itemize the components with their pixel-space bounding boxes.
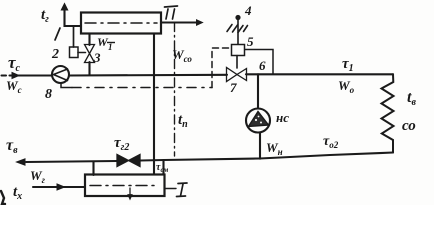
valve 3 (regulating, vertical) — [85, 45, 95, 54]
svg-text:Wс: Wс — [6, 78, 22, 95]
wire: exchanger II outlet to right arrow — [161, 21, 198, 23]
svg-text:tв: tв — [407, 89, 416, 108]
svg-text:6: 6 — [259, 58, 266, 73]
svg-text:tх: tх — [13, 184, 22, 202]
svg-text:7: 7 — [230, 80, 237, 95]
heat exchanger II (stage 2) — [81, 13, 161, 34]
svg-text:tп: tп — [178, 112, 188, 130]
svg-text:со: со — [402, 118, 416, 134]
exchanger I drain arrow — [129, 188, 131, 197]
svg-text:τг2: τг2 — [114, 135, 129, 153]
node 1 label pointer — [55, 28, 60, 40]
wire: branch to sensor 2 — [73, 26, 75, 47]
svg-text:3: 3 — [93, 50, 101, 65]
svg-text:5: 5 — [247, 34, 254, 49]
wire: impulse line from 8 — [61, 83, 72, 88]
wire: return main — [141, 153, 394, 161]
wire: return to exchanger I — [92, 162, 94, 175]
svg-text:τ1: τ1 — [342, 56, 354, 74]
wire: supply main tau_c — [2, 74, 7, 76]
wire: stub to exchanger I right — [162, 160, 164, 174]
svg-text:8: 8 — [45, 87, 52, 102]
label II (П) — [165, 6, 178, 19]
wire: box5 to node 6 — [245, 50, 273, 74]
wire: cold water feed — [33, 186, 85, 188]
svg-text:Wо: Wо — [338, 78, 355, 95]
wire: pump to return main — [259, 133, 261, 159]
svg-text:τо2: τо2 — [323, 134, 339, 150]
svg-text:Wсо: Wсо — [172, 47, 192, 64]
svg-text:τв: τв — [6, 137, 18, 156]
sensor box 2 — [70, 47, 79, 58]
exchanger I centerline — [90, 185, 158, 187]
wire: box5 stem to valve 7 — [236, 56, 238, 69]
label I (roman) — [177, 183, 188, 197]
heat exchanger I (stage 1) — [85, 175, 165, 197]
wire: exchanger II to valve 3 — [88, 34, 90, 46]
label I leader — [165, 188, 177, 190]
wire: valve 3 to supply main — [88, 62, 90, 75]
svg-text:4: 4 — [244, 3, 252, 18]
svg-text:tг: tг — [41, 7, 49, 25]
wire: t_п impulse line — [174, 23, 176, 157]
wire: pump branch — [257, 74, 259, 108]
svg-text:нс: нс — [276, 110, 289, 125]
valve 7 (regulating, horizontal) — [227, 68, 238, 82]
radiator CO — [382, 74, 394, 152]
wire: supply main to valve 7 — [69, 74, 227, 77]
svg-text:τсм: τсм — [156, 162, 169, 174]
svg-text:Wн: Wн — [266, 140, 283, 157]
svg-text:Wг: Wг — [30, 168, 46, 185]
pump HC — [246, 109, 270, 133]
wire: valve 7 to radiator — [246, 73, 393, 75]
ink blot bottom-left corner — [1, 191, 5, 204]
flow meter 8 — [52, 66, 69, 83]
regulator box 5 — [232, 45, 245, 56]
wire: riser stage1 to stage2 — [153, 34, 155, 175]
svg-text:τс: τс — [8, 53, 21, 74]
valve tau_г2 (bypass) — [117, 155, 129, 167]
wire: t_г tap from exchanger II left — [65, 8, 82, 26]
wire: box 2 to valve 3 — [78, 52, 86, 54]
outdoor sensor 4 — [227, 16, 248, 44]
exchanger II centerline — [85, 22, 157, 24]
svg-text:2: 2 — [51, 47, 59, 62]
svg-text:1: 1 — [108, 42, 113, 52]
